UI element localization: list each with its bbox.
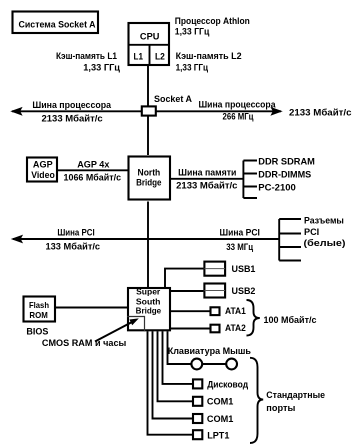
- svg-text:1,33 ГГц: 1,33 ГГц: [175, 26, 210, 37]
- ATA2 box: [211, 325, 220, 333]
- svg-text:порты: порты: [266, 403, 295, 414]
- svg-text:PCI: PCI: [304, 227, 319, 238]
- COM1 box a: [193, 397, 202, 406]
- svg-text:1066 Мбайт/с: 1066 Мбайт/с: [64, 172, 122, 183]
- svg-text:PC-2100: PC-2100: [258, 183, 296, 194]
- socket A junction box: [142, 106, 156, 115]
- svg-text:Стандартные: Стандартные: [266, 390, 325, 401]
- svg-text:266 МГц: 266 МГц: [223, 112, 254, 123]
- svg-text:Socket A: Socket A: [154, 94, 192, 105]
- svg-text:Шина процессора: Шина процессора: [32, 100, 111, 111]
- wire AGP to North Bridge: [58, 169, 128, 171]
- svg-text:Разъемы: Разъемы: [304, 216, 344, 227]
- svg-text:1,33 ГГц: 1,33 ГГц: [176, 62, 209, 73]
- svg-text:L1: L1: [134, 52, 144, 62]
- brace Стандартные порты: [250, 358, 263, 443]
- svg-text:ROM: ROM: [29, 310, 47, 320]
- svg-text:COM1: COM1: [207, 397, 234, 408]
- svg-text:Шина памяти: Шина памяти: [178, 167, 236, 178]
- keyboard circle: [191, 359, 202, 370]
- wire SB to keyboard circle: [168, 331, 192, 364]
- wire SB to Дисковод: [163, 331, 193, 384]
- USB2 box: [204, 284, 225, 298]
- svg-text:North: North: [138, 168, 161, 178]
- DDR comb bracket: [243, 161, 257, 199]
- svg-text:Flash: Flash: [29, 300, 49, 310]
- memory bus line: [171, 178, 243, 180]
- CMOS sub-box: [127, 317, 145, 332]
- wire ATA1 to South Bridge: [171, 310, 210, 312]
- COM1 box b: [193, 414, 202, 423]
- svg-text:COM1: COM1: [207, 414, 234, 425]
- svg-text:CPU: CPU: [140, 31, 160, 41]
- svg-text:Клавиатура Мышь: Клавиатура Мышь: [168, 346, 251, 357]
- svg-text:BIOS: BIOS: [26, 327, 48, 338]
- box Система Socket A: [13, 12, 99, 34]
- svg-text:Шина PCI: Шина PCI: [57, 227, 94, 238]
- svg-text:2133 Мбайт/с: 2133 Мбайт/с: [42, 113, 103, 124]
- svg-text:LPT1: LPT1: [207, 431, 230, 442]
- svg-text:Video: Video: [31, 170, 55, 180]
- wire SB to COM1 b: [153, 331, 193, 418]
- svg-text:Процессор Athlon: Процессор Athlon: [175, 16, 250, 27]
- wire Socket A to North Bridge: [147, 117, 149, 156]
- wire SB to COM1 a: [158, 331, 193, 401]
- USB1 box: [204, 262, 225, 276]
- svg-text:33 МГц: 33 МГц: [226, 242, 253, 253]
- svg-text:Кэш-память L2: Кэш-память L2: [176, 51, 242, 62]
- svg-text:ATA2: ATA2: [225, 323, 246, 334]
- PCI comb bracket: [279, 219, 301, 261]
- wire keyboard to mouse: [203, 363, 226, 365]
- wire ATA2 to South Bridge: [171, 328, 210, 330]
- svg-text:Система Socket A: Система Socket A: [19, 20, 96, 31]
- svg-text:Bridge: Bridge: [136, 305, 162, 315]
- svg-text:AGP 4x: AGP 4x: [77, 159, 110, 170]
- svg-text:(белые): (белые): [304, 238, 346, 249]
- svg-text:133 Мбайт/с: 133 Мбайт/с: [46, 241, 101, 252]
- wire SB to LPT1: [148, 331, 193, 434]
- wire USB1 to South Bridge: [165, 269, 203, 287]
- svg-text:Шина процессора: Шина процессора: [199, 100, 277, 111]
- arrow CMOS: [95, 322, 133, 342]
- svg-text:Bridge: Bridge: [136, 178, 161, 188]
- svg-text:Кэш-память L1: Кэш-память L1: [56, 51, 118, 62]
- svg-text:Шина PCI: Шина PCI: [220, 228, 260, 239]
- svg-text:1,33 ГГц: 1,33 ГГц: [83, 62, 120, 73]
- CPU box: [129, 23, 170, 65]
- arrowhead left processor bus: [10, 107, 22, 116]
- svg-text:Дисковод: Дисковод: [207, 379, 248, 390]
- wire USB2 to South Bridge: [171, 290, 203, 292]
- svg-text:L2: L2: [155, 52, 165, 62]
- PCI bus line: [13, 238, 279, 240]
- svg-text:DDR-DIMMS: DDR-DIMMS: [258, 170, 311, 181]
- svg-text:2133 Мбайт/с: 2133 Мбайт/с: [289, 108, 352, 119]
- ATA1 box: [211, 307, 220, 315]
- svg-text:ATA1: ATA1: [225, 306, 246, 317]
- wire CPU to Socket A: [147, 66, 149, 106]
- svg-text:Super: Super: [136, 287, 161, 297]
- svg-text:AGP: AGP: [33, 160, 53, 170]
- Super South Bridge box: [128, 288, 170, 330]
- AGP Video box: [27, 158, 57, 182]
- mouse circle: [226, 359, 237, 370]
- LPT1 box: [193, 430, 202, 439]
- svg-text:100 Мбайт/с: 100 Мбайт/с: [264, 315, 317, 326]
- North Bridge box: [129, 157, 171, 200]
- arrowhead right processor bus: [270, 107, 282, 116]
- Дисковод box: [193, 379, 202, 388]
- svg-text:USB2: USB2: [232, 286, 256, 297]
- svg-text:DDR SDRAM: DDR SDRAM: [258, 156, 315, 167]
- Flash ROM box: [24, 297, 56, 322]
- arrowhead left PCI bus: [11, 235, 23, 244]
- wire North Bridge to South Bridge: [147, 202, 149, 288]
- processor bus line: [12, 110, 281, 112]
- svg-text:USB1: USB1: [232, 264, 257, 275]
- wire Flash ROM to South Bridge: [56, 307, 127, 309]
- svg-text:2133 Мбайт/с: 2133 Мбайт/с: [176, 181, 237, 192]
- brace 100 Mbait: [247, 300, 260, 336]
- svg-text:CMOS RAM и часы: CMOS RAM и часы: [42, 338, 126, 349]
